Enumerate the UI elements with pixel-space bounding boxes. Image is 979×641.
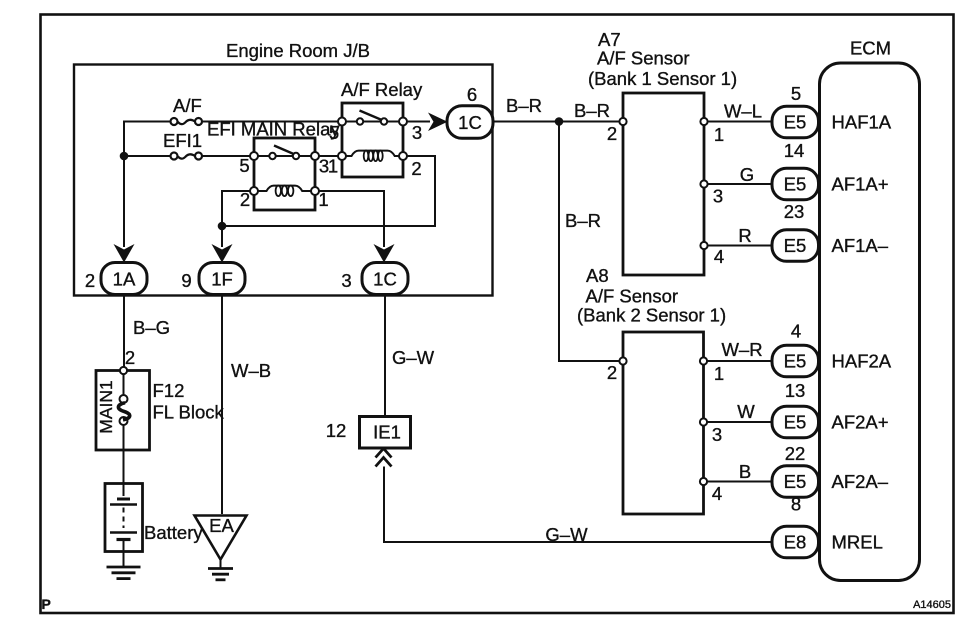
svg-text:1: 1 bbox=[318, 189, 328, 210]
svg-text:IE1: IE1 bbox=[373, 422, 401, 443]
connector E5 pin 23 bbox=[772, 201, 819, 261]
svg-text:5: 5 bbox=[791, 83, 801, 104]
svg-text:1: 1 bbox=[714, 363, 724, 384]
svg-text:23: 23 bbox=[784, 201, 805, 222]
battery bbox=[105, 484, 143, 552]
sensor A8: A/F Sensor (Bank 2 Sensor 1) bbox=[577, 265, 726, 514]
connector E5 pin 4 bbox=[772, 321, 819, 377]
svg-text:12: 12 bbox=[326, 420, 347, 441]
wire: A/F fuse feed and left vertical to 1A bbox=[124, 122, 170, 248]
ECM module bbox=[820, 38, 920, 581]
svg-text:E5: E5 bbox=[784, 351, 807, 372]
svg-text:AF2A+: AF2A+ bbox=[832, 412, 889, 433]
wire: A/F fuse to A/F relay pin 5 bbox=[202, 121, 338, 123]
svg-text:3: 3 bbox=[341, 270, 351, 291]
junction box J/B: Engine Room J/B bbox=[74, 40, 493, 296]
svg-text:1: 1 bbox=[328, 156, 338, 177]
wire W-B: connector 1F to ground EA bbox=[221, 294, 223, 514]
svg-text:B: B bbox=[739, 461, 751, 482]
svg-text:22: 22 bbox=[785, 443, 806, 464]
svg-text:13: 13 bbox=[785, 380, 806, 401]
wire: EFI MAIN coil pin2 to 1F vertical bbox=[222, 191, 250, 247]
svg-text:EFI MAIN Relay: EFI MAIN Relay bbox=[207, 119, 340, 140]
connector IE1 bbox=[360, 417, 411, 449]
svg-text:4: 4 bbox=[714, 246, 724, 267]
pin 1 terminal A7 bbox=[700, 118, 707, 125]
svg-text:1: 1 bbox=[714, 124, 724, 145]
svg-text:Battery: Battery bbox=[144, 522, 203, 543]
svg-text:4: 4 bbox=[791, 321, 801, 342]
svg-text:(Bank 2 Sensor 1): (Bank 2 Sensor 1) bbox=[577, 305, 726, 326]
fusible link F12 FL Block MAIN1 bbox=[96, 367, 150, 450]
svg-text:E8: E8 bbox=[784, 532, 807, 553]
relay: EFI MAIN Relay bbox=[207, 119, 340, 211]
connector E8 pin 8 bbox=[772, 494, 819, 558]
connector arrow into 1A bbox=[114, 244, 135, 263]
svg-text:1C: 1C bbox=[373, 269, 397, 290]
connector arrow into 1C bottom bbox=[374, 244, 395, 263]
svg-text:B–R: B–R bbox=[574, 100, 610, 121]
node: B-R branch junction bbox=[555, 117, 564, 126]
ground below EA bbox=[208, 560, 233, 580]
wire: EFI MAIN coil pin1 to connector 1C bbox=[319, 191, 384, 247]
svg-text:W–L: W–L bbox=[724, 101, 762, 122]
wire: FL block to battery bbox=[123, 450, 125, 484]
svg-text:2: 2 bbox=[240, 189, 250, 210]
svg-text:2: 2 bbox=[125, 347, 135, 368]
svg-text:G–W: G–W bbox=[545, 524, 588, 545]
svg-text:R: R bbox=[738, 225, 751, 246]
pin 3 terminal A8 bbox=[700, 418, 707, 425]
svg-text:A/F: A/F bbox=[173, 95, 202, 116]
wire: EFI1 fuse to EFI MAIN relay pin 5 bbox=[202, 155, 250, 157]
svg-text:3: 3 bbox=[713, 186, 723, 207]
wire B-G: connector 1A to FL block bbox=[123, 294, 125, 367]
node: junction on 1F line bbox=[218, 222, 227, 231]
connector E5 pin 13 bbox=[772, 380, 819, 438]
svg-text:W–B: W–B bbox=[231, 360, 271, 381]
wire: junction to EFI1 fuse bbox=[124, 155, 170, 157]
svg-text:FL Block: FL Block bbox=[153, 402, 225, 423]
svg-text:5: 5 bbox=[239, 155, 249, 176]
svg-text:3: 3 bbox=[712, 424, 722, 445]
svg-text:AF2A–: AF2A– bbox=[832, 471, 889, 492]
svg-text:G: G bbox=[740, 164, 754, 185]
svg-text:W–R: W–R bbox=[721, 339, 762, 360]
svg-text:3: 3 bbox=[412, 122, 422, 143]
pin 1 terminal A8 bbox=[700, 357, 707, 364]
svg-text:1A: 1A bbox=[113, 269, 136, 290]
svg-text:1C: 1C bbox=[458, 112, 482, 133]
svg-text:AF1A–: AF1A– bbox=[832, 235, 889, 256]
svg-text:B–R: B–R bbox=[565, 210, 601, 231]
connector 1A bbox=[101, 263, 147, 295]
svg-text:A/F Sensor: A/F Sensor bbox=[586, 286, 679, 307]
svg-text:ECM: ECM bbox=[850, 38, 891, 59]
svg-text:A14605: A14605 bbox=[913, 599, 951, 611]
fuse EFI1 bbox=[163, 130, 202, 160]
connector arrow into 1F bbox=[212, 244, 233, 263]
svg-text:E5: E5 bbox=[784, 235, 807, 256]
svg-text:MREL: MREL bbox=[832, 532, 883, 553]
svg-text:1F: 1F bbox=[211, 269, 233, 290]
wire: A/F relay coil pin2 loop to 1F line bbox=[222, 156, 435, 226]
svg-text:A/F Sensor: A/F Sensor bbox=[597, 48, 690, 69]
svg-text:B–R: B–R bbox=[506, 95, 542, 116]
connector E5 pin 22 bbox=[772, 443, 819, 497]
svg-text:2: 2 bbox=[607, 123, 617, 144]
relay: A/F Relay bbox=[338, 79, 423, 177]
svg-text:4: 4 bbox=[712, 483, 722, 504]
pin 3 terminal A7 bbox=[700, 180, 707, 187]
fuse A/F bbox=[171, 95, 203, 125]
connector continuation chevrons below IE1 bbox=[376, 449, 392, 467]
svg-text:EA: EA bbox=[209, 515, 234, 536]
svg-text:Engine Room J/B: Engine Room J/B bbox=[226, 40, 370, 61]
wire R: A7 pin4 to E5 bbox=[708, 245, 772, 247]
pin 2 terminal A7 bbox=[619, 118, 626, 125]
svg-text:E5: E5 bbox=[784, 112, 807, 133]
wire: A/F relay pin3 to connector 6 1C bbox=[407, 121, 430, 123]
svg-text:8: 8 bbox=[791, 494, 801, 515]
wire G: A7 pin3 to E5 bbox=[708, 183, 772, 185]
svg-text:F12: F12 bbox=[153, 380, 185, 401]
connector 1F bbox=[199, 263, 245, 295]
svg-text:6: 6 bbox=[467, 84, 477, 105]
wire B: A8 pin4 to E5 bbox=[707, 481, 771, 483]
connector E5 pin 5 bbox=[772, 83, 819, 138]
pin 4 terminal A7 bbox=[700, 242, 707, 249]
svg-text:G–W: G–W bbox=[392, 347, 435, 368]
wire G-W: IE1 to E8 MREL bbox=[384, 467, 772, 543]
pin 2 terminal A8 bbox=[619, 357, 626, 364]
ground below battery bbox=[107, 552, 141, 579]
svg-text:EFI1: EFI1 bbox=[163, 130, 202, 151]
sensor A7: A/F Sensor (Bank 1 Sensor 1) bbox=[588, 29, 737, 275]
wire W-R: A8 pin1 to E5 bbox=[707, 360, 771, 362]
svg-text:E5: E5 bbox=[784, 412, 807, 433]
wire B-R: branch down to A8 pin 2 bbox=[559, 122, 619, 362]
svg-text:2: 2 bbox=[607, 362, 617, 383]
svg-text:MAIN1: MAIN1 bbox=[96, 380, 116, 433]
wire W: A8 pin3 to E5 bbox=[707, 421, 771, 423]
svg-text:2: 2 bbox=[411, 158, 421, 179]
svg-text:E5: E5 bbox=[784, 471, 807, 492]
svg-text:P: P bbox=[42, 596, 51, 612]
node: junction of EFI1 feed on left vertical bbox=[120, 152, 129, 161]
svg-text:HAF2A: HAF2A bbox=[832, 351, 892, 372]
svg-text:2: 2 bbox=[85, 270, 95, 291]
ground EA triangle bbox=[195, 515, 247, 560]
svg-text:B–G: B–G bbox=[133, 317, 170, 338]
wire W-L: A7 pin1 to E5 bbox=[708, 121, 772, 123]
svg-text:14: 14 bbox=[784, 140, 805, 161]
pin 4 terminal A8 bbox=[700, 478, 707, 485]
svg-text:A8: A8 bbox=[586, 265, 609, 286]
wire G-W: connector 1C to IE1 bbox=[384, 294, 386, 417]
svg-text:W: W bbox=[737, 401, 755, 422]
svg-text:(Bank 1 Sensor 1): (Bank 1 Sensor 1) bbox=[588, 68, 737, 89]
connector E5 pin 14 bbox=[772, 140, 819, 200]
connector arrow into 6 1C bbox=[428, 113, 448, 132]
wire: EFI MAIN pin3 to A/F relay coil pin1 bbox=[319, 155, 338, 157]
svg-text:HAF1A: HAF1A bbox=[832, 112, 892, 133]
svg-text:A/F Relay: A/F Relay bbox=[341, 79, 423, 100]
connector 6 1C bbox=[447, 84, 493, 138]
connector 1C bottom bbox=[362, 263, 408, 295]
svg-text:9: 9 bbox=[181, 270, 191, 291]
svg-text:5: 5 bbox=[329, 122, 339, 143]
wire B-R: connector 1C to A7 pin 2 bbox=[493, 121, 620, 123]
svg-text:AF1A+: AF1A+ bbox=[832, 174, 889, 195]
svg-text:E5: E5 bbox=[784, 174, 807, 195]
